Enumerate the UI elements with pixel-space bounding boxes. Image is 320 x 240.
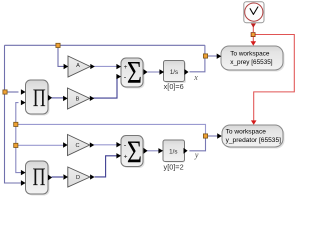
wire: node J2 to To-workspace x_prey input	[206, 55, 218, 57]
wire: x-feedback left vertical and bottom run to product P2 input 2	[5, 45, 22, 183]
wire: gain C output to sum S2 - input	[93, 144, 116, 146]
node J1	[56, 43, 60, 47]
svg-text:x[0]=6: x[0]=6	[164, 82, 184, 91]
wire: x-feedback top horizontal	[5, 44, 205, 46]
svg-text:Π: Π	[33, 84, 46, 111]
svg-text:B: B	[76, 97, 80, 103]
clock block output port	[251, 23, 256, 27]
svg-text:Σ: Σ	[127, 56, 142, 91]
svg-text:D: D	[76, 175, 80, 181]
integrator I2 block	[158, 140, 187, 163]
svg-text:+: +	[124, 64, 128, 71]
node J4	[14, 122, 18, 126]
sum S1 block	[116, 56, 147, 91]
svg-text:y_predator [65535]: y_predator [65535]	[226, 137, 282, 144]
gain A block	[64, 56, 95, 77]
integrator I1 block	[159, 61, 188, 84]
wire: branch from node J1 down to gain A input	[58, 45, 64, 66]
wire: node J5 to gain C input	[16, 144, 64, 146]
node J5	[14, 143, 18, 147]
wire: gain B output to sum S1 - input	[93, 77, 118, 99]
gain D block	[63, 167, 94, 187]
wire: y-feedback vertical up to product P1 input 2	[16, 103, 19, 125]
wire: y-feedback vertical down through node J5 to product P2 input 1	[16, 124, 21, 172]
node label y	[194, 150, 199, 159]
wire: gain A output to sum S1 + input	[90, 65, 116, 67]
svg-text:y: y	[194, 150, 199, 159]
svg-text:+: +	[124, 153, 128, 160]
node J3	[203, 134, 207, 138]
wire: product P1 output to gain B input	[52, 97, 65, 99]
svg-text:1/s: 1/s	[170, 69, 178, 76]
wire: sum S1 output to integrator I1 input	[148, 71, 160, 73]
wire: integrator I1 output up to node J2 and top corner	[190, 45, 205, 72]
integrator I2 value label y[0]=2	[164, 163, 184, 172]
sum S2 block	[116, 135, 147, 170]
svg-text:Σ: Σ	[127, 135, 142, 170]
svg-text:x: x	[193, 73, 198, 82]
wire: node J3 to To-workspace y_predator input	[206, 135, 219, 137]
wire: gain D output to sum S2 + input	[95, 156, 118, 177]
wire: integrator I2 output up to node J3	[189, 136, 205, 151]
svg-text:x_prey [65535]: x_prey [65535]	[230, 59, 273, 66]
wire: branch from node J7 to product P1 input 1	[5, 91, 19, 93]
svg-text:To workspace: To workspace	[230, 50, 270, 57]
wire: red event link clock to node J6	[252, 25, 254, 32]
node J7	[3, 90, 7, 94]
gain C block	[63, 135, 94, 156]
node J2	[203, 54, 207, 58]
product P2 block	[21, 161, 52, 196]
node J6	[251, 33, 255, 37]
wire: sum S2 output to integrator I2 input	[146, 150, 160, 152]
To workspace x_prey block	[217, 46, 285, 72]
gain B block	[63, 88, 94, 109]
svg-text:To workspace: To workspace	[226, 129, 267, 136]
svg-text:y[0]=2: y[0]=2	[164, 163, 184, 172]
product P1 block	[21, 80, 52, 116]
To workspace y_predator block	[217, 125, 284, 149]
wire: y-feedback middle horizontal	[16, 124, 206, 136]
wire: red event link node J6 right and down to y_predator workspace	[251, 35, 294, 125]
svg-text:C: C	[75, 143, 79, 149]
integrator I1 value label x[0]=6	[164, 82, 184, 91]
wire: product P2 output to gain D input	[52, 176, 64, 178]
wire: red event link node J6 down to x_prey workspace	[251, 37, 257, 46]
node label x	[193, 73, 198, 82]
svg-text:Π: Π	[32, 163, 45, 190]
svg-text:A: A	[76, 63, 80, 69]
svg-text:1/s: 1/s	[169, 148, 177, 155]
clock block	[244, 2, 264, 23]
